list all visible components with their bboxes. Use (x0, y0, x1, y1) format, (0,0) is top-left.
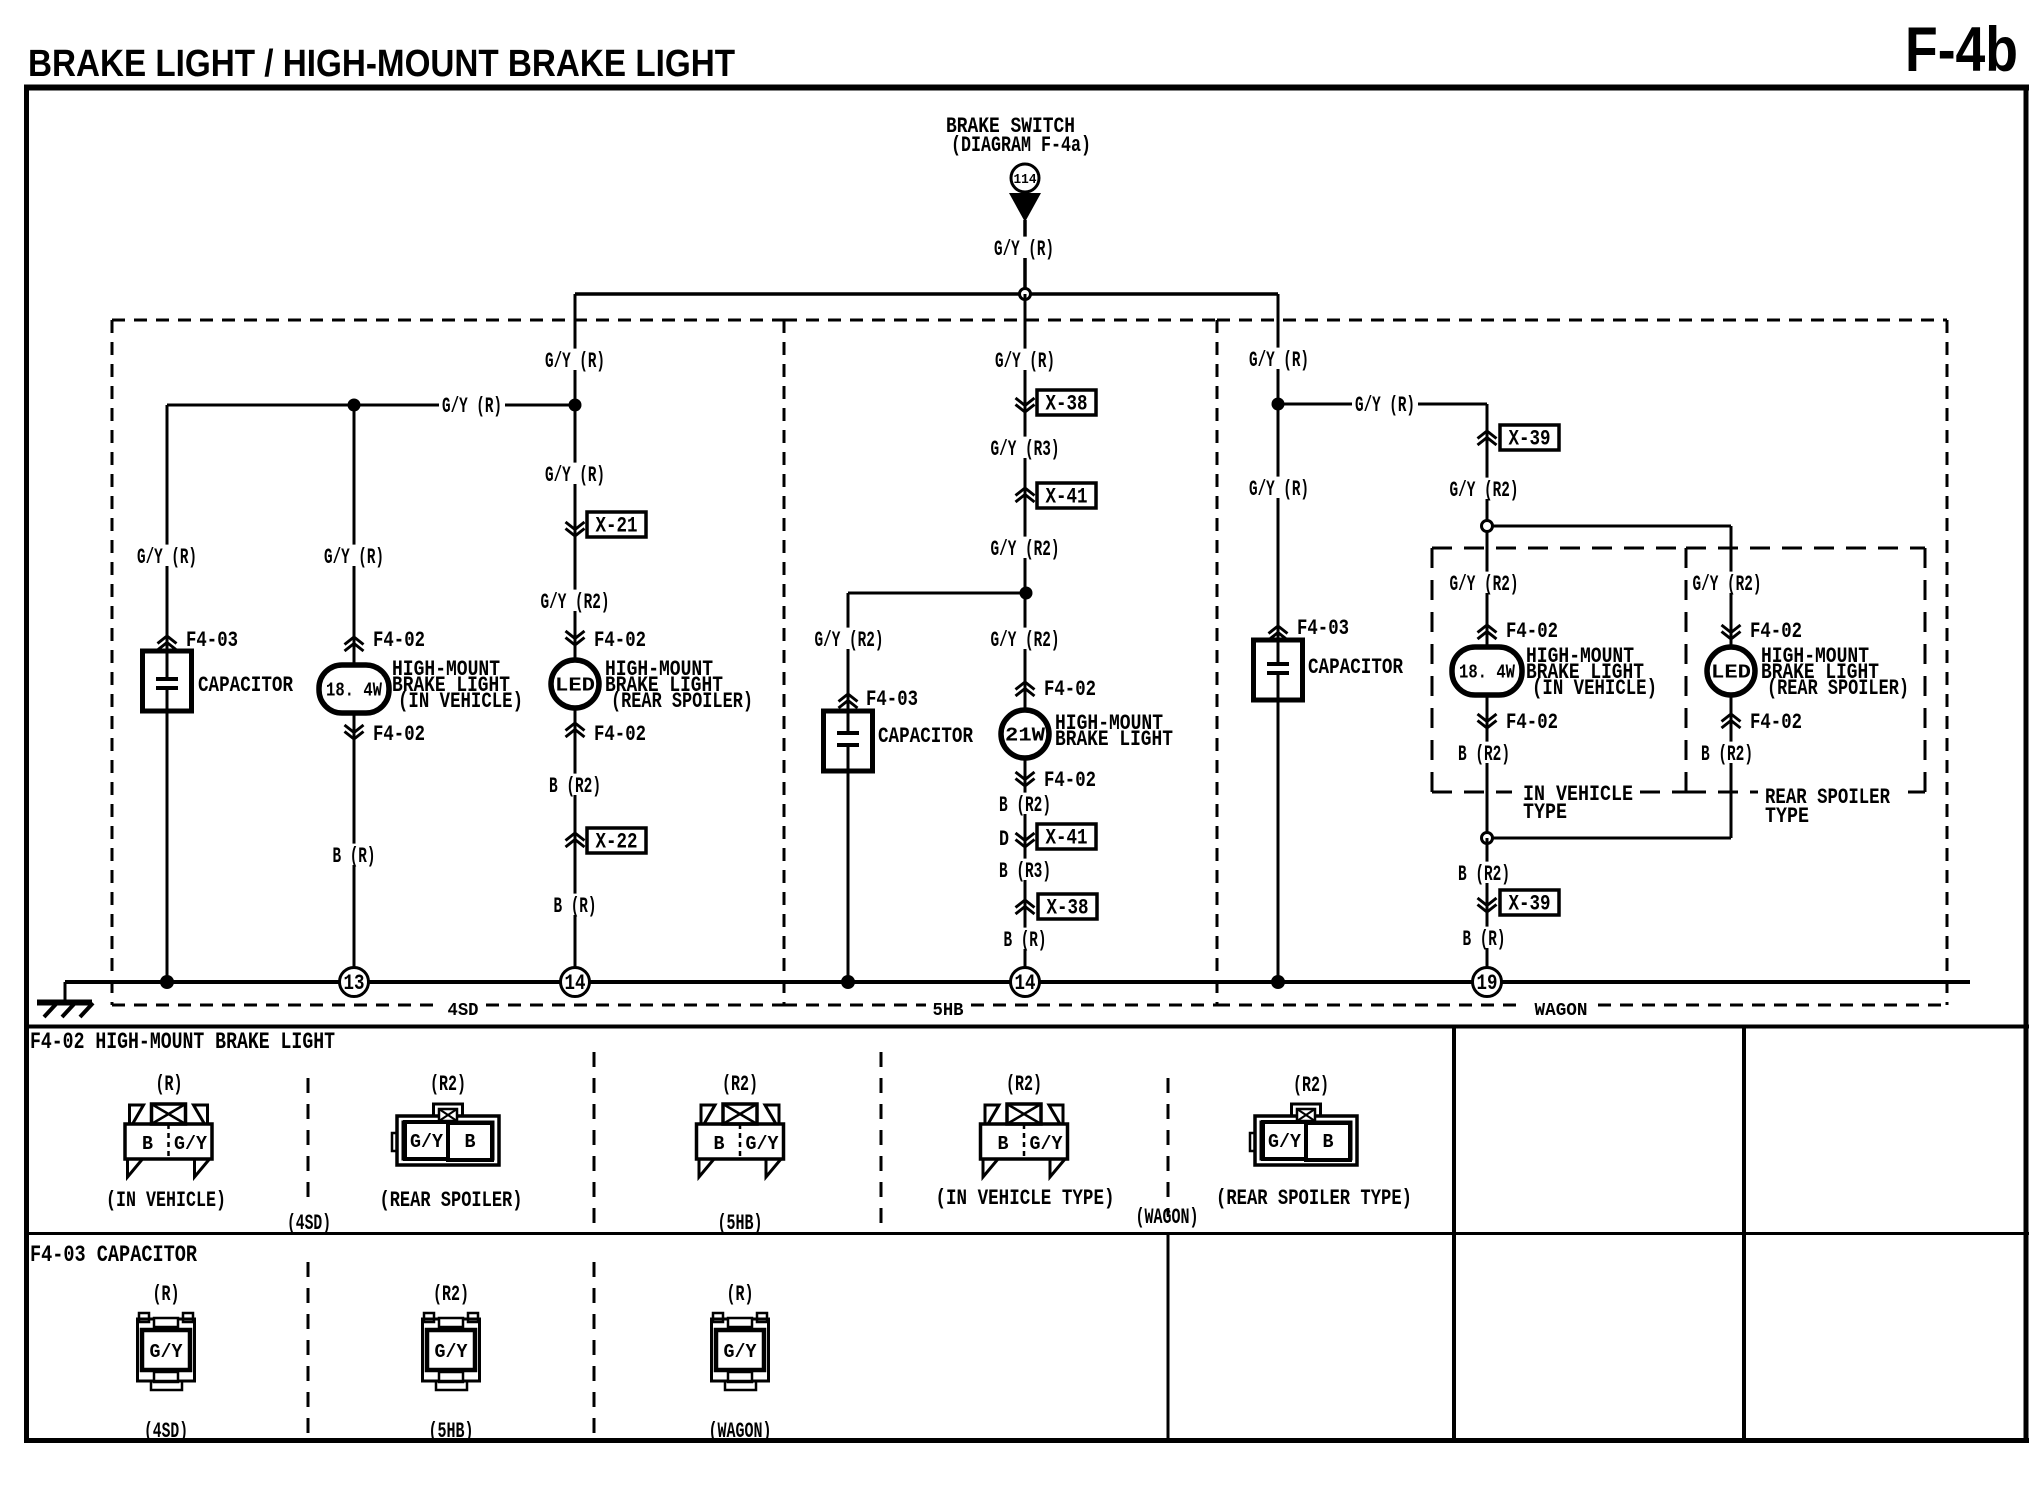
connector box X-38 upper (1037, 390, 1096, 415)
svg-text:F4-02: F4-02 (373, 722, 425, 747)
svg-text:14: 14 (1015, 971, 1036, 996)
wire label B (R) bulb branch 4SD (330, 844, 379, 865)
svg-text:F4-02: F4-02 (1506, 710, 1558, 735)
svg-text:B (R2): B (R2) (1458, 742, 1510, 767)
connector box X-39 lower (1500, 890, 1559, 915)
wire capacitor branch 5HB x=848 (847, 593, 850, 733)
connector F4-02 chevron above bulb 4SD (345, 637, 364, 651)
junction node at 354,405 (348, 399, 361, 412)
svg-text:G/Y (R3): G/Y (R3) (991, 437, 1060, 462)
svg-text:(WAGON): (WAGON) (709, 1419, 772, 1444)
svg-text:X-38: X-38 (1046, 392, 1088, 417)
connector F4-02 chevron below bulb 5HB (1016, 772, 1035, 786)
connector F4-02 chevron above LED WAGON (1722, 625, 1741, 639)
capacitor C1 4SD (143, 651, 192, 711)
connector box X-41 upper (1037, 483, 1096, 508)
svg-text:13: 13 (344, 971, 365, 996)
svg-text:(R2): (R2) (430, 1072, 466, 1097)
svg-text:(IN VEHICLE TYPE): (IN VEHICLE TYPE) (936, 1186, 1115, 1211)
table dashed separator row1 x=1168 (1167, 1078, 1170, 1215)
wire label G/Y (R) LED branch below junction (542, 463, 608, 484)
svg-text:B (R): B (R) (1004, 928, 1047, 953)
wire label G/Y (R2) in-vehicle branch (1447, 572, 1522, 593)
wire label G/Y (R2) 5HB (988, 537, 1063, 558)
svg-text:G/Y: G/Y (174, 1133, 208, 1155)
wire label G/Y (R) 5HB (992, 349, 1058, 370)
connector pinout F4-03 4SD (138, 1282, 195, 1444)
svg-text:19: 19 (1477, 971, 1498, 996)
svg-text:G/Y (R): G/Y (R) (1249, 477, 1309, 502)
svg-text:G/Y: G/Y (1268, 1131, 1302, 1153)
svg-text:B (R2): B (R2) (1458, 862, 1510, 887)
capacitor C3 WAGON (1254, 640, 1303, 700)
svg-text:B (R3): B (R3) (999, 859, 1051, 884)
svg-text:(WAGON): (WAGON) (1136, 1205, 1199, 1230)
table dashed separator row2 x=594 (593, 1262, 596, 1436)
connector X-38 chevron upper 5HB (1016, 398, 1035, 412)
ground connector circle 14 4SD (561, 968, 590, 997)
wire label G/Y (R3) 5HB (988, 437, 1063, 458)
svg-text:LED: LED (1711, 662, 1751, 684)
feed bus wire G/Y (R) horizontal (575, 292, 1278, 296)
svg-text:G/Y (R2): G/Y (R2) (1693, 572, 1762, 597)
svg-text:G/Y (R): G/Y (R) (994, 237, 1054, 262)
wire label G/Y (R) on 4SD branch wire (439, 394, 505, 415)
svg-text:(REAR SPOILER TYPE): (REAR SPOILER TYPE) (1216, 1186, 1412, 1211)
ground connector circle 19 (1473, 968, 1502, 997)
connector F4-02 chevron above bulb 5HB (1016, 682, 1035, 696)
wire label G/Y (R) above feed node (991, 237, 1057, 258)
svg-text:X-41: X-41 (1046, 485, 1088, 510)
svg-text:F4-03: F4-03 (866, 687, 918, 712)
svg-text:F-4b: F-4b (1905, 15, 2018, 85)
svg-text:G/Y (R2): G/Y (R2) (991, 537, 1060, 562)
bulb LED high-mount brake light rear spoiler WAGON (1707, 647, 1755, 695)
table dashed separator row1 x=881 (880, 1052, 883, 1230)
svg-text:G/Y (R2): G/Y (R2) (1450, 478, 1519, 503)
dashed box REAR SPOILER TYPE (1686, 548, 1925, 792)
wire horizontal from rear spoiler branch bottom (1487, 837, 1731, 840)
connector box X-41 lower (1037, 824, 1096, 849)
connector X-22 chevron (566, 833, 585, 847)
arrow from brake switch (1009, 193, 1041, 222)
wire label B (R) 5HB (1001, 928, 1050, 949)
wire label G/Y (R) WAGON upper (1246, 348, 1312, 369)
ground symbol (37, 982, 93, 1017)
svg-text:F4-02: F4-02 (1044, 677, 1096, 702)
connector F4-02 chevron below bulb 4SD (345, 725, 364, 739)
wire branch horizontal G/Y (R) 4SD at y=405 (167, 404, 575, 407)
connector X-41 chevron upper 5HB (1016, 488, 1035, 502)
svg-text:(REAR SPOILER): (REAR SPOILER) (1767, 676, 1909, 701)
svg-text:(IN VEHICLE): (IN VEHICLE) (106, 1188, 226, 1213)
open node at 1487,838 (1482, 833, 1493, 844)
svg-text:G/Y (R): G/Y (R) (442, 394, 502, 419)
svg-text:G/Y (R): G/Y (R) (995, 349, 1055, 374)
ground bus wire (65, 980, 1970, 984)
svg-text:F4-02: F4-02 (373, 628, 425, 653)
svg-text:21W: 21W (1005, 725, 1046, 747)
svg-text:(5HB): (5HB) (429, 1419, 474, 1444)
svg-text:G/Y: G/Y (724, 1341, 758, 1363)
junction dot capacitor to ground bus WAGON (1271, 975, 1285, 989)
wire capacitor branch 4SD x=167 (166, 405, 169, 679)
svg-text:(R2): (R2) (1006, 1072, 1042, 1097)
wire main branch 5HB x=1025 (1024, 294, 1027, 982)
connector X-21 chevron (566, 522, 585, 536)
svg-text:(IN VEHICLE): (IN VEHICLE) (398, 689, 523, 714)
svg-text:(R2): (R2) (1293, 1073, 1329, 1098)
svg-text:114: 114 (1014, 172, 1037, 188)
wire LED branch 4SD x=575 (574, 294, 577, 982)
svg-text:B: B (714, 1133, 725, 1155)
connector pinout F4-02 (REAR SPOILER TYPE) WAGON (1216, 1073, 1412, 1211)
wire label G/Y (R) capacitor branch 4SD (134, 545, 200, 566)
connector box X-38 lower (1038, 894, 1097, 919)
svg-text:G/Y (R): G/Y (R) (1249, 348, 1309, 373)
svg-text:5HB: 5HB (933, 1001, 964, 1021)
svg-text:G/Y (R): G/Y (R) (324, 545, 384, 570)
svg-text:F4-02: F4-02 (1044, 768, 1096, 793)
connector box X-39 upper (1500, 425, 1559, 450)
connector F4-03 chevron 5HB (839, 694, 858, 708)
svg-text:D: D (999, 827, 1009, 852)
bulb 21W high-mount brake light 5HB (1001, 710, 1049, 758)
wire label G/Y (R) LED branch upper (542, 349, 608, 370)
wire horizontal branch WAGON y=404 (1278, 403, 1487, 406)
connector pinout F4-02 (IN VEHICLE) 4SD (106, 1072, 226, 1213)
svg-text:(4SD): (4SD) (287, 1211, 331, 1236)
dashed box 5HB section (784, 320, 1217, 1005)
wire from node down to ground circle 19 (1486, 838, 1489, 982)
svg-text:B (R): B (R) (1463, 927, 1506, 952)
svg-text:(4SD): (4SD) (144, 1419, 188, 1444)
wire in-vehicle branch x=1487 (1486, 526, 1489, 838)
connector F4-03 chevron WAGON (1269, 626, 1288, 640)
svg-text:(REAR SPOILER): (REAR SPOILER) (611, 689, 753, 714)
junction node at 575,405 (569, 399, 582, 412)
svg-text:G/Y: G/Y (1030, 1133, 1064, 1155)
svg-text:(IN VEHICLE): (IN VEHICLE) (1532, 676, 1657, 701)
connector F4-02 chevron below LED 4SD (566, 723, 585, 737)
connector pinout F4-02 (IN VEHICLE TYPE) WAGON (936, 1072, 1115, 1211)
connector F4-03 chevron 4SD (158, 636, 177, 650)
svg-text:F4-03: F4-03 (1297, 616, 1349, 641)
wire label G/Y (R2) LED branch (538, 590, 613, 611)
wire rear spoiler branch down x=1731 (1730, 526, 1733, 838)
open node at 1487,526 (1482, 521, 1493, 532)
svg-text:F4-03 CAPACITOR: F4-03 CAPACITOR (30, 1242, 197, 1268)
divider between diagram and connector table (24, 1025, 2029, 1029)
svg-text:WAGON: WAGON (1535, 1001, 1588, 1021)
wire label G/Y (R) WAGON capacitor branch (1246, 477, 1312, 498)
svg-text:TYPE: TYPE (1765, 804, 1809, 829)
svg-text:B (R2): B (R2) (999, 793, 1051, 818)
svg-text:X-22: X-22 (596, 830, 638, 855)
connector F4-02 chevron below 18.4W WAGON (1478, 714, 1497, 728)
svg-text:B (R2): B (R2) (549, 774, 601, 799)
table vertical line x=1168 row2 (1167, 1234, 1170, 1440)
svg-text:G/Y: G/Y (150, 1341, 184, 1363)
wire horizontal to rear spoiler branch top (1487, 525, 1731, 528)
svg-text:X-41: X-41 (1046, 826, 1088, 851)
svg-text:(R2): (R2) (722, 1072, 758, 1097)
svg-text:(R): (R) (727, 1282, 754, 1307)
ground connector circle 14 5HB (1011, 968, 1040, 997)
wire label B (R2) in-vehicle branch (1455, 742, 1513, 763)
svg-text:F4-02 HIGH-MOUNT BRAKE LIGHT: F4-02 HIGH-MOUNT BRAKE LIGHT (30, 1029, 335, 1055)
table vertical line x=1454 (1452, 1026, 1456, 1440)
wire from brake switch arrow down to feed node (1023, 220, 1027, 294)
wire label G/Y (R2) capacitor branch 5HB (812, 628, 887, 649)
wire horizontal to capacitor 5HB (848, 592, 1026, 595)
junction dot 5HB capacitor branch (1020, 587, 1033, 600)
svg-text:BRAKE LIGHT / HIGH-MOUNT BRAKE: BRAKE LIGHT / HIGH-MOUNT BRAKE LIGHT (28, 43, 735, 85)
wire label B (R2) rear spoiler branch (1698, 742, 1756, 763)
connector F4-02 chevron below LED WAGON (1722, 714, 1741, 728)
connector F4-02 chevron above 18.4W WAGON (1478, 625, 1497, 639)
svg-text:G/Y: G/Y (435, 1341, 469, 1363)
svg-text:G/Y (R2): G/Y (R2) (815, 628, 884, 653)
connector pinout F4-03 WAGON (709, 1282, 772, 1444)
svg-text:(R2): (R2) (433, 1282, 469, 1307)
svg-text:CAPACITOR: CAPACITOR (198, 673, 294, 698)
connector X-39 chevron upper WAGON (1478, 431, 1497, 445)
svg-text:TYPE: TYPE (1523, 800, 1567, 825)
svg-text:G/Y (R): G/Y (R) (137, 545, 197, 570)
connector pinout F4-03 5HB (423, 1282, 480, 1444)
svg-text:F4-02: F4-02 (594, 722, 646, 747)
wire label G/Y (R) bulb branch 4SD (321, 545, 387, 566)
svg-text:X-39: X-39 (1509, 427, 1551, 452)
wire label B (R) LED branch (551, 894, 600, 915)
svg-text:(5HB): (5HB) (718, 1211, 763, 1236)
wire label B (R2) below node WAGON (1455, 862, 1513, 883)
connector X-39 chevron lower WAGON (1478, 898, 1497, 912)
svg-text:BRAKE LIGHT: BRAKE LIGHT (1055, 727, 1173, 752)
wire label B (R3) 5HB (996, 859, 1054, 880)
table dashed separator row1 x=594 (593, 1052, 596, 1230)
connector box X-21 (587, 512, 646, 537)
connector X-41 chevron lower 5HB (1016, 833, 1035, 847)
svg-text:X-38: X-38 (1047, 896, 1089, 921)
svg-text:(REAR SPOILER): (REAR SPOILER) (380, 1188, 523, 1213)
junction dot WAGON at 1278,404 (1272, 398, 1285, 411)
svg-text:G/Y: G/Y (746, 1133, 780, 1155)
table vertical line x=1744 (1742, 1026, 1746, 1440)
dashed box IN VEHICLE TYPE (1432, 548, 1686, 792)
svg-text:B: B (465, 1131, 476, 1153)
wire label B (R2) 5HB (996, 793, 1054, 814)
connector pinout F4-02 (REAR SPOILER) 4SD (380, 1072, 523, 1213)
table dashed separator row2 x=308 (307, 1262, 310, 1436)
wire label B (R2) LED branch (546, 774, 604, 795)
svg-text:CAPACITOR: CAPACITOR (878, 724, 974, 749)
svg-text:F4-02: F4-02 (1750, 710, 1802, 735)
wire label G/Y (R) on WAGON branch wire (1352, 393, 1418, 414)
junction dot capacitor to ground bus 4SD (160, 975, 174, 989)
connector pinout F4-02 5HB (697, 1072, 784, 1236)
bulb 18.4W high-mount brake light in vehicle WAGON (1452, 647, 1522, 695)
svg-text:G/Y (R): G/Y (R) (1355, 393, 1415, 418)
svg-text:F4-02: F4-02 (594, 628, 646, 653)
svg-text:B (R): B (R) (333, 844, 376, 869)
wire label B (R) WAGON (1460, 927, 1509, 948)
wire down to X-39 and node (1486, 404, 1489, 526)
dashed box WAGON section (1217, 320, 1947, 1005)
connector circle 114 from brake switch (1011, 164, 1039, 192)
svg-text:4SD: 4SD (448, 1001, 479, 1021)
dashed box 4SD section (112, 320, 784, 1005)
svg-text:B: B (998, 1133, 1009, 1155)
wire label G/Y (R2) WAGON (1447, 478, 1522, 499)
capacitor C2 5HB (824, 711, 873, 771)
svg-text:B (R2): B (R2) (1701, 742, 1753, 767)
svg-text:F4-02: F4-02 (1750, 619, 1802, 644)
svg-text:(R): (R) (156, 1072, 183, 1097)
svg-text:CAPACITOR: CAPACITOR (1308, 655, 1404, 680)
svg-text:G/Y (R2): G/Y (R2) (1450, 572, 1519, 597)
svg-text:G/Y (R): G/Y (R) (545, 349, 605, 374)
svg-text:(R): (R) (153, 1282, 180, 1307)
ground connector circle 13 (340, 968, 369, 997)
svg-text:G/Y (R2): G/Y (R2) (541, 590, 610, 615)
connector X-38 chevron lower 5HB (1016, 900, 1035, 914)
svg-text:X-39: X-39 (1509, 892, 1551, 917)
table dashed separator row1 x=308 (307, 1078, 310, 1206)
svg-text:G/Y (R2): G/Y (R2) (991, 628, 1060, 653)
wire label G/Y (R2) rear spoiler branch (1690, 572, 1765, 593)
svg-text:G/Y (R): G/Y (R) (545, 463, 605, 488)
connector box X-22 (587, 828, 646, 853)
svg-text:F4-02: F4-02 (1506, 619, 1558, 644)
wire label G/Y (R2) above bulb 5HB (988, 628, 1063, 649)
svg-text:(DIAGRAM F-4a): (DIAGRAM F-4a) (951, 133, 1091, 158)
connector F4-02 chevron above LED 4SD (566, 631, 585, 645)
wire bulb branch 4SD x=354 (353, 405, 356, 982)
junction dot capacitor to ground bus 5HB (841, 975, 855, 989)
bulb LED high-mount brake light rear spoiler 4SD (551, 660, 599, 708)
svg-text:LED: LED (555, 675, 595, 697)
svg-text:14: 14 (565, 971, 586, 996)
svg-text:B: B (142, 1133, 153, 1155)
svg-text:18. 4W: 18. 4W (326, 680, 382, 702)
svg-text:X-21: X-21 (596, 514, 638, 539)
feed node open circle at 1025,294 (1020, 289, 1031, 300)
wire capacitor branch WAGON x=1278 (1277, 294, 1280, 664)
svg-text:B (R): B (R) (554, 894, 597, 919)
svg-text:18. 4W: 18. 4W (1459, 662, 1515, 684)
svg-text:G/Y: G/Y (410, 1131, 444, 1153)
table row divider (24, 1232, 2029, 1235)
bulb 18.4W high-mount brake light in vehicle 4SD (319, 665, 389, 713)
svg-text:B: B (1323, 1131, 1334, 1153)
